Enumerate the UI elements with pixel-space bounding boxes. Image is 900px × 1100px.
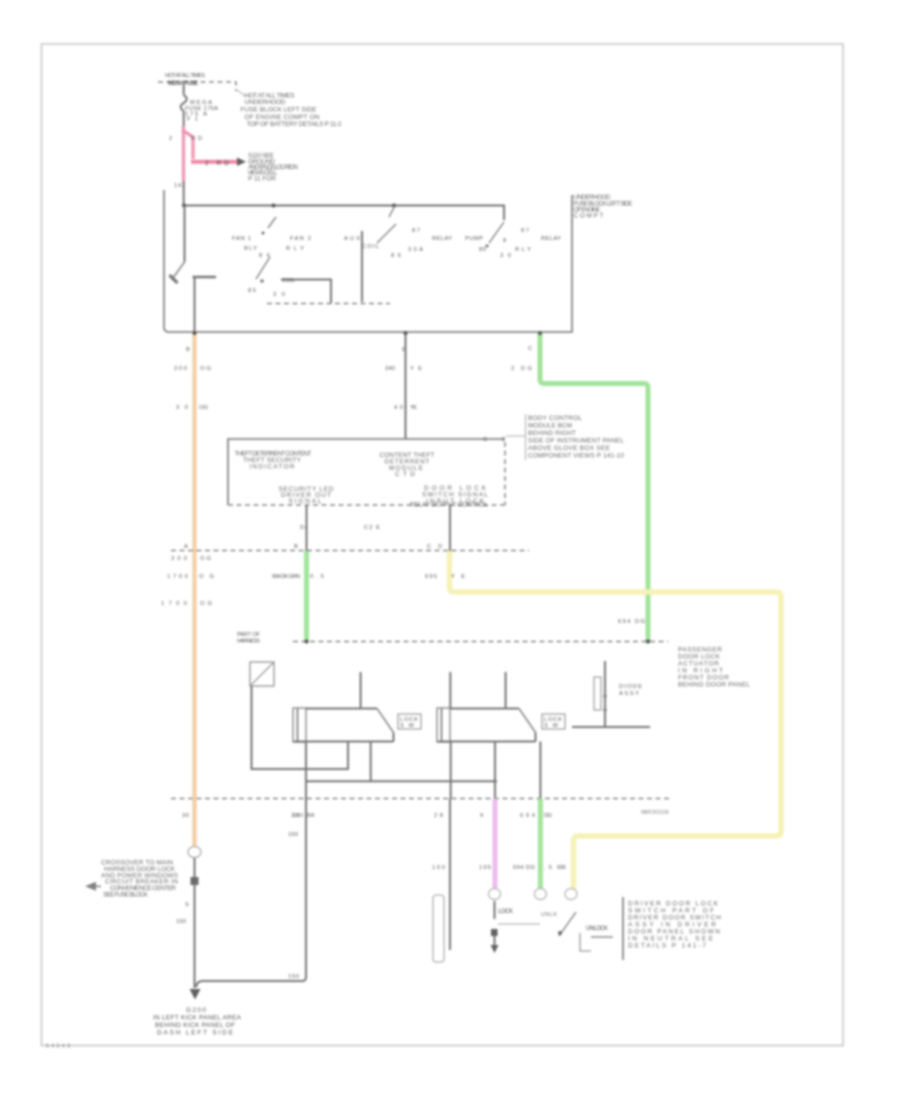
BCM text block 1 <box>235 451 312 471</box>
switch common line <box>498 923 540 925</box>
svg-text:87: 87 <box>412 228 420 234</box>
arrow left <box>85 882 96 891</box>
svg-text:PART OF DOOR: PART OF DOOR <box>641 810 669 816</box>
junction dot <box>193 331 197 335</box>
BCM text block 2 <box>380 452 435 478</box>
svg-text:30: 30 <box>182 813 189 819</box>
door lock switch text block <box>628 901 721 950</box>
svg-text:RLY: RLY <box>244 246 257 252</box>
switch base line <box>591 936 613 938</box>
wire pink <box>493 799 498 889</box>
svg-text:300: 300 <box>174 366 187 372</box>
wire gray from red to bus <box>183 181 185 206</box>
connector oval pink <box>489 889 501 900</box>
svg-text:COMPONENT VIEWS P 141-10: COMPONENT VIEWS P 141-10 <box>528 453 624 460</box>
svg-text:B: B <box>294 544 298 550</box>
svg-text:300: 300 <box>171 556 187 562</box>
door lock motor M2 <box>437 672 536 742</box>
fuse block dashed top border <box>158 82 236 91</box>
wire orange lower <box>192 799 196 847</box>
svg-text:BEHIND DOOR PANEL: BEHIND DOOR PANEL <box>678 682 750 689</box>
svg-text:B: B <box>186 347 190 353</box>
svg-text:BODY CONTROL: BODY CONTROL <box>528 415 582 422</box>
svg-text:ACTUATOR: ACTUATOR <box>678 661 719 668</box>
svg-text:DOOR LOCK: DOOR LOCK <box>678 654 721 661</box>
svg-text:A: A <box>184 544 188 550</box>
svg-text:2 DG: 2 DG <box>511 366 532 372</box>
wire gray mid <box>405 332 407 439</box>
svg-text:HARNESS: HARNESS <box>237 639 260 645</box>
connector dashed line lower <box>171 798 670 800</box>
junction dot <box>404 331 408 335</box>
wire label 300 OG <box>174 366 211 372</box>
svg-text:9: 9 <box>480 813 483 819</box>
svg-text:BEHIND RIGHT: BEHIND RIGHT <box>528 430 576 437</box>
svg-text:OG: OG <box>199 405 208 411</box>
svg-text:ABOVE GLOVE BOX SEE: ABOVE GLOVE BOX SEE <box>528 445 611 452</box>
svg-text:COIL: COIL <box>282 278 296 284</box>
wire green BCM <box>304 551 309 642</box>
svg-text:IN RIGHT: IN RIGHT <box>678 668 723 675</box>
junction dot <box>538 331 542 335</box>
splice S110 text block <box>248 153 299 183</box>
svg-text:694 DK GRN: 694 DK GRN <box>272 574 300 580</box>
svg-text:COIL: COIL <box>362 244 380 250</box>
bus bar <box>184 206 504 221</box>
connector dashed line C200 <box>171 550 529 552</box>
svg-text:AUX: AUX <box>344 236 360 242</box>
wire label green <box>513 865 552 871</box>
switch component bracket <box>580 933 591 951</box>
splice diagonal red <box>182 130 193 137</box>
BCM text block 4 <box>410 485 488 509</box>
svg-text:694: 694 <box>520 813 536 819</box>
svg-text:P 11 FOR: P 11 FOR <box>248 175 276 182</box>
relay K2 cluster B <box>344 206 452 302</box>
wire stub <box>494 936 496 945</box>
splice square <box>491 929 498 936</box>
inline connector label <box>237 632 260 645</box>
wire label 340 <box>385 366 422 372</box>
fuse value label <box>185 100 218 123</box>
wire gray stub <box>306 505 308 551</box>
BCM right text block <box>526 414 625 460</box>
relay K1 cluster A <box>232 217 390 304</box>
svg-text:FRONT DOOR: FRONT DOOR <box>678 675 729 682</box>
switch blade yellow <box>559 912 576 936</box>
junction dot green right bus <box>646 640 650 644</box>
svg-text:UNLK: UNLK <box>541 912 557 918</box>
wire red vertical <box>182 126 185 181</box>
svg-text:RELAY: RELAY <box>541 236 561 242</box>
svg-text:CTD: CTD <box>395 471 415 478</box>
svg-text:FAN 2: FAN 2 <box>290 236 311 242</box>
svg-text:LOCK: LOCK <box>498 909 513 915</box>
wire label YE <box>425 574 465 580</box>
junction dot lower bus <box>493 780 497 784</box>
svg-text:RELAY: RELAY <box>432 236 452 242</box>
svg-text:MODULE BCM: MODULE BCM <box>528 423 572 430</box>
wire label row 2 left <box>176 405 208 411</box>
svg-text:30A: 30A <box>408 247 423 253</box>
wire label orange row3 <box>161 601 212 607</box>
splice arrow <box>237 158 246 167</box>
svg-text:OF ENGINE COMPT ON: OF ENGINE COMPT ON <box>245 114 320 121</box>
svg-text:85: 85 <box>248 288 256 294</box>
underhood fuse block text block <box>236 89 342 128</box>
svg-text:694 DG: 694 DG <box>618 619 645 625</box>
wire label TN GRN <box>272 574 324 580</box>
switch housing tall box <box>433 895 444 962</box>
left text block <box>101 860 179 899</box>
svg-text:RLY: RLY <box>515 247 531 253</box>
wire green lower <box>538 799 543 889</box>
svg-text:HOT AT ALL TIMES: HOT AT ALL TIMES <box>165 73 205 79</box>
svg-text:YE: YE <box>410 405 417 411</box>
door lock motor M1 <box>293 672 394 742</box>
wire drop M2 c <box>539 742 541 799</box>
svg-text:BEHIND KICK PANEL OF: BEHIND KICK PANEL OF <box>155 1022 235 1029</box>
arrow down <box>491 945 499 953</box>
svg-text:TOP OF BATTERY DETAILS P 11-2: TOP OF BATTERY DETAILS P 11-2 <box>247 121 342 128</box>
junction dot <box>272 204 276 208</box>
connector oval green <box>534 889 546 900</box>
bracket line <box>622 897 624 960</box>
wire drop M2 a <box>450 742 452 799</box>
svg-text:IN LEFT KICK PANEL AREA: IN LEFT KICK PANEL AREA <box>153 1015 242 1022</box>
wire gray switch feed <box>449 799 451 951</box>
svg-text:DIODE: DIODE <box>619 684 642 690</box>
inline connector symbol <box>250 662 274 686</box>
wire yellow BCM <box>450 551 782 889</box>
ground G200 <box>194 981 196 988</box>
svg-text:FAN 1: FAN 1 <box>232 236 251 242</box>
switch wire stub pink <box>494 901 496 919</box>
wire label 700 OG row <box>167 574 214 580</box>
wire label 300 OG row <box>171 556 211 562</box>
svg-text:195: 195 <box>479 865 491 871</box>
svg-text:D: D <box>438 544 442 550</box>
svg-text:DRIVER DOOR SWITCH: DRIVER DOOR SWITCH <box>628 915 721 922</box>
wire gray to ground <box>194 858 196 981</box>
junction bus dashed <box>293 641 668 643</box>
wire from connector <box>252 686 349 769</box>
svg-text:OG: OG <box>200 556 211 562</box>
svg-text:ASSY: ASSY <box>619 691 639 697</box>
svg-text:FUSE BLOCK LEFT SIDE: FUSE BLOCK LEFT SIDE <box>241 107 318 114</box>
svg-text:694 DG: 694 DG <box>513 865 535 871</box>
svg-text:C: C <box>427 544 431 550</box>
svg-text:150: 150 <box>432 865 445 871</box>
svg-text:BK: BK <box>307 813 315 819</box>
svg-text:SEE FUSE BLOCK: SEE FUSE BLOCK <box>103 892 149 899</box>
motor M1 label box <box>398 714 421 729</box>
svg-text:RLY: RLY <box>286 246 304 252</box>
svg-text:30: 30 <box>291 813 299 819</box>
right module text block <box>678 647 750 689</box>
fuse block right label <box>574 194 634 220</box>
svg-text:C2 E: C2 E <box>364 525 380 531</box>
underhood fuse block box <box>164 190 572 332</box>
svg-text:8: 8 <box>503 238 506 244</box>
svg-text:.5: .5 <box>544 865 552 871</box>
splice node S2 <box>191 877 199 885</box>
svg-text:PUMP: PUMP <box>465 236 483 242</box>
body control module box <box>228 439 505 505</box>
wire drop M2 b <box>494 742 496 799</box>
junction dot green bus <box>305 640 309 644</box>
leader line <box>506 435 525 437</box>
junction dot <box>392 204 396 208</box>
wire label row 2 mid <box>394 405 417 411</box>
relay K3 cluster C <box>465 222 561 259</box>
svg-text:OG: OG <box>200 366 211 372</box>
svg-text:150: 150 <box>288 832 298 838</box>
svg-text:87: 87 <box>521 228 529 234</box>
resistor R1 <box>594 661 642 727</box>
wire orange main <box>192 332 196 847</box>
svg-text:0.5: 0.5 <box>310 574 324 580</box>
svg-text:150: 150 <box>288 974 299 980</box>
ground text block <box>153 1007 242 1037</box>
BCM text block 3 <box>279 486 334 505</box>
svg-text:695: 695 <box>425 574 437 580</box>
svg-text:C: C <box>528 346 532 352</box>
svg-text:COMPT: COMPT <box>574 213 604 220</box>
svg-text:85: 85 <box>479 247 486 253</box>
switch contact dot <box>558 931 562 935</box>
fuse F1 <box>181 85 187 127</box>
svg-text:340: 340 <box>385 366 395 372</box>
svg-text:DRIVER DOOR LOCK: DRIVER DOOR LOCK <box>628 901 719 908</box>
wire drop M1 b <box>370 742 372 782</box>
svg-text:PASSENGER: PASSENGER <box>678 647 722 654</box>
svg-text:UNLOCK: UNLOCK <box>586 926 608 932</box>
wire drop M1 a <box>197 742 307 988</box>
svg-text:150: 150 <box>176 919 186 925</box>
wire green from fuse block <box>540 332 648 641</box>
svg-text:695: 695 <box>557 865 566 871</box>
connector C2 oval <box>188 847 201 858</box>
wire gray stub <box>449 505 451 551</box>
wire red strand 2 <box>191 136 194 159</box>
svg-text:DG: DG <box>544 813 552 819</box>
switch SW1 (internal) <box>170 206 217 333</box>
motor M2 label box <box>542 714 565 729</box>
svg-text:SIDE OF INSTRUMENT PANEL: SIDE OF INSTRUMENT PANEL <box>528 438 624 445</box>
wire bus lower <box>306 780 496 782</box>
wire R1 bottom <box>572 726 650 728</box>
svg-text:PART OF: PART OF <box>237 632 260 638</box>
connector oval yellow <box>565 889 577 900</box>
wire red branch horizontal <box>191 160 238 164</box>
svg-text:2: 2 <box>169 136 172 142</box>
junction dot <box>182 204 186 208</box>
svg-text:S: S <box>185 902 189 908</box>
svg-text:UNDERHOOD: UNDERHOOD <box>245 99 286 106</box>
